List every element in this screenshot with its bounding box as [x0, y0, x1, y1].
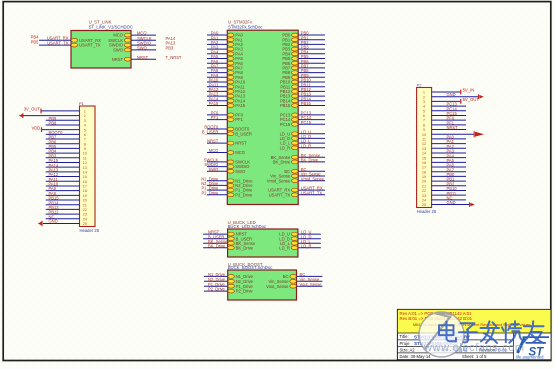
- svg-text:PF1: PF1: [235, 117, 243, 122]
- wire PB2 from U2 + net label: [298, 43, 325, 45]
- wire SWDIO from U1 + net label: [131, 44, 156, 46]
- wire USART_TX from U2 + net label: [298, 194, 325, 196]
- wire PA8 to U2 + net label: [207, 72, 227, 74]
- svg-text:PB8: PB8: [49, 121, 57, 126]
- svg-text:SWO: SWO: [209, 167, 219, 172]
- sheet entry pin PB9 on U2 right: [292, 75, 299, 79]
- sheet entry pin PF1 on U2 left: [227, 118, 234, 122]
- svg-text:NRST: NRST: [207, 139, 219, 144]
- wire P1 pin 12 net PA15: [46, 161, 80, 163]
- wire P2 pin 18 net PA7: [432, 171, 466, 173]
- svg-text:PB3: PB3: [166, 46, 174, 51]
- wire P2 pin 5 net PC14: [432, 110, 466, 112]
- sheet entry pin Vin_Sense on U4 right: [290, 279, 297, 283]
- wire BK_Sense from U2 + net label: [298, 156, 325, 158]
- sheet entry pin PF0 on U2 left: [227, 113, 234, 117]
- svg-text:P2: P2: [417, 82, 423, 87]
- svg-text:PA15: PA15: [235, 103, 246, 108]
- wire Vin_Sense from U4 + net label: [297, 280, 323, 282]
- sheet entry pin PA3 on U2 left: [227, 47, 234, 51]
- wire P2 pin 15 net PA4: [432, 157, 466, 159]
- wire NRST to U3 + net label: [203, 233, 228, 235]
- wire USART_TX to U1 + net label: [39, 44, 71, 46]
- sheet entry pin PC15 on U2 right: [292, 122, 299, 126]
- connector P1 body Header 25: [80, 106, 96, 227]
- wire GND from P2 pin 2 + power arrow: [432, 96, 479, 98]
- wire PF0 to U2 + net label: [207, 114, 227, 116]
- svg-text:5V_OUT: 5V_OUT: [463, 97, 480, 102]
- svg-text:Vout_Sense: Vout_Sense: [266, 284, 289, 289]
- sheet symbol U1 ST_LINK body: [71, 31, 131, 69]
- wire P2 pin 12 net PA1: [432, 143, 466, 145]
- wire LD_D from U2 + net label: [298, 137, 325, 139]
- sheet entry pin PA11 on U2 left: [227, 85, 234, 89]
- wire B_USER to U3 + net label: [203, 238, 228, 240]
- sheet entry pin USART_TX on U1 left: [71, 43, 78, 47]
- svg-text:BK_Drive: BK_Drive: [208, 243, 226, 248]
- wire USART_RX to U1 + net label: [39, 39, 71, 41]
- wire P1 pin 15 net PA12: [46, 176, 80, 178]
- wire P2 pin 17 net PA6: [432, 166, 466, 168]
- wire LD_U from U3 + net label: [298, 233, 321, 235]
- sheet entry pin MCO on U2 left: [227, 151, 234, 155]
- svg-text:life.augmented: life.augmented: [516, 354, 544, 359]
- svg-text:PB15: PB15: [280, 103, 291, 108]
- wire PF1 to U2 + net label: [207, 119, 227, 121]
- sheet entry pin PB6 on U2 right: [292, 61, 299, 65]
- wire P1 pin 23 net PB12: [46, 213, 80, 215]
- wire N1_Drive to U4 + net label: [204, 275, 228, 277]
- wire Vin_Sense from U2 + net label: [298, 175, 325, 177]
- wire P1 pin 22 net PB13: [46, 208, 80, 210]
- sheet entry pin PA14 on U2 left: [227, 99, 234, 103]
- wire BK_Drive from U2 + net label: [298, 161, 325, 163]
- wire SWO to U2 + net label: [207, 170, 227, 172]
- wire P1 pin 18 net PA9: [46, 190, 80, 192]
- svg-text:P2_Drive: P2_Drive: [235, 192, 253, 197]
- title block frame: [397, 309, 551, 359]
- sheet entry pin PA0 on U2 left: [227, 33, 234, 37]
- wire PB1 from U2 + net label: [298, 39, 325, 41]
- wire PB6 from U2 + net label: [298, 62, 325, 64]
- svg-text:SWO: SWO: [113, 48, 124, 53]
- sheet entry pin BC on U4 right: [290, 275, 297, 279]
- wire P1 pin 20 net PB15: [46, 199, 80, 201]
- wire USART_RX from U2 + net label: [298, 189, 325, 191]
- svg-text:P1: P1: [79, 101, 85, 106]
- wire PA1 to U2 + net label: [207, 39, 227, 41]
- wire P2 pin 21 net PB2: [432, 185, 466, 187]
- svg-text:USART_TX: USART_TX: [79, 43, 101, 48]
- sheet entry pin NRST on U1 right: [124, 57, 131, 61]
- svg-text:3V_OUT: 3V_OUT: [24, 107, 41, 112]
- wire N1_Drive to U2 + net label: [207, 180, 227, 182]
- wire P1 pin 14 net PA13: [46, 171, 80, 173]
- wire P2 pin 8 net PF1: [432, 124, 466, 126]
- svg-text:STM32Fx.SchDoc: STM32Fx.SchDoc: [228, 24, 263, 29]
- wire P1 pin 7 net PB7: [46, 138, 80, 140]
- connector P2 pin numbers 1-25: [422, 90, 427, 208]
- svg-text:Header 25: Header 25: [417, 209, 437, 214]
- svg-text:MCO: MCO: [235, 150, 245, 155]
- wire PA9 to U2 + net label: [207, 76, 227, 78]
- sheet entry pin PB0 on U2 right: [292, 33, 299, 37]
- svg-text:LD_R: LD_R: [301, 143, 312, 148]
- wire P1 pin 10 net PB4: [46, 152, 80, 154]
- sheet entry pin PB5 on U2 right: [292, 57, 299, 61]
- sheet entry pin SWO on U2 left: [227, 169, 234, 173]
- wire PB13 from U2 + net label: [298, 95, 325, 97]
- wire PC13 from U2 + net label: [298, 114, 325, 116]
- sheet entry pin PB8 on U2 right: [292, 71, 299, 75]
- wire MCO to U2 + net label: [207, 152, 227, 154]
- wire P2 pin 23 net PB11: [432, 194, 466, 196]
- svg-text:PC15: PC15: [280, 122, 291, 127]
- sheet entry pin SWCLK on U1 right: [124, 38, 131, 42]
- svg-text:B_USER: B_USER: [235, 131, 252, 136]
- connector P1 pin numbers 1-25: [83, 109, 88, 227]
- sheet entry pin PA2 on U2 left: [227, 43, 234, 47]
- svg-text:BUCK_BOOST.SchDoc: BUCK_BOOST.SchDoc: [228, 265, 274, 270]
- wire P1 pin 4 net PB8: [46, 124, 80, 126]
- svg-text:Vmid_Sense: Vmid_Sense: [267, 178, 291, 183]
- sheet entry pin BK_Sense on U3 left: [228, 241, 235, 245]
- wire P2 pin 19 net PB0: [432, 175, 466, 177]
- svg-text:NRST: NRST: [137, 55, 149, 60]
- svg-text:P2_Drive: P2_Drive: [236, 289, 254, 294]
- wire SWDIO to U2 + net label: [207, 166, 227, 168]
- wire PA13 to U2 + net label: [207, 95, 227, 97]
- sheet entry pin USART_RX on U2 right: [292, 188, 299, 192]
- sheet entry pin PA9 on U2 left: [227, 75, 234, 79]
- sheet entry pin LD_L on U3 right: [291, 241, 298, 245]
- wire PB15 from U2 + net label: [298, 105, 325, 107]
- svg-text:MCO: MCO: [209, 148, 219, 153]
- connector P2 body Header 25: [417, 88, 432, 208]
- wire P2 pin 14 net PA3: [432, 152, 466, 154]
- svg-text:LD_R: LD_R: [301, 243, 312, 248]
- svg-text:PF1: PF1: [211, 115, 219, 120]
- sheet entry pin PA13 on U2 left: [227, 94, 234, 98]
- wire PB11 from U2 + net label: [298, 86, 325, 88]
- sheet entry pin LD_L on U2 right: [292, 141, 299, 145]
- sheet entry pin BC on U2 right: [292, 169, 299, 173]
- wire P2 pin 13 net PA2: [432, 147, 466, 149]
- sheet entry pin LD_D on U3 right: [291, 237, 298, 241]
- wire PB9 from U2 + net label: [298, 76, 325, 78]
- wire PA7 to U2 + net label: [207, 67, 227, 69]
- sheet entry pin PA15 on U2 left: [227, 104, 234, 108]
- wire P2 pin 7 net PF0: [432, 119, 466, 121]
- wire PA5 to U2 + net label: [207, 58, 227, 60]
- sheet entry pin N1_Drive on U4 left: [228, 275, 235, 279]
- wire N2_Drive to U4 + net label: [204, 280, 228, 282]
- wire P2 pin 16 net PA5: [432, 161, 466, 163]
- wire PA3 to U2 + net label: [207, 48, 227, 50]
- svg-text:B_USER: B_USER: [202, 129, 218, 134]
- wire BK_Drive to U3 + net label: [203, 247, 228, 249]
- svg-text:NRST: NRST: [235, 141, 247, 146]
- sheet entry pin MCO on U1 right: [124, 33, 131, 37]
- sheet entry pin NRST on U2 left: [227, 141, 234, 145]
- wire PA15 to U2 + net label: [207, 105, 227, 107]
- svg-text:Vmid_Sense: Vmid_Sense: [301, 176, 325, 181]
- sheet entry pin LD_D on U2 right: [292, 137, 299, 141]
- wire P1 pin 9 net PB5: [46, 147, 80, 149]
- svg-text:PC15: PC15: [301, 120, 312, 125]
- wire BOOT0 to U2 + net label: [207, 128, 227, 130]
- ground GND arrow + wire to P1 pin 25: [43, 222, 80, 224]
- sheet entry pin NRST on U3 left: [228, 232, 235, 236]
- wire Vout_Sense from U4 + net label: [297, 285, 323, 287]
- sheet entry pin PB7 on U2 right: [292, 66, 299, 70]
- watermark chinese characters dian zi fa shao you: [439, 321, 544, 343]
- sheet entry pin BK_Drive on U3 left: [228, 246, 235, 250]
- svg-text:SWO: SWO: [137, 46, 147, 51]
- wire P2 pin 11 net PA0: [432, 138, 466, 140]
- wire P2 pin 24 net NC: [432, 199, 466, 201]
- wire P1_Drive to U4 + net label: [204, 285, 228, 287]
- wire PA10 to U2 + net label: [207, 81, 227, 83]
- svg-text:1 of 5: 1 of 5: [476, 354, 487, 359]
- wire PA11 to U2 + net label: [207, 86, 227, 88]
- sheet entry pin PB3 on U2 right: [292, 47, 299, 51]
- sheet entry pin PA1 on U2 left: [227, 38, 234, 42]
- sheet entry pin P2_Drive on U4 left: [228, 289, 235, 293]
- wire PA2 to U2 + net label: [207, 43, 227, 45]
- wire PB14 from U2 + net label: [298, 100, 325, 102]
- wire P2_Drive to U2 + net label: [207, 194, 227, 196]
- sheet symbol U2 STM32Fx body: [227, 30, 298, 204]
- title block revision note yellow band: [398, 310, 551, 333]
- wire LD_L from U3 + net label: [298, 242, 321, 244]
- sheet entry pin PB2 on U2 right: [292, 43, 299, 47]
- wire SWO from U1 + net label: [131, 49, 156, 51]
- sheet entry pin SWDIO on U2 left: [227, 165, 234, 169]
- svg-text:BUCK_LED.SchDoc: BUCK_LED.SchDoc: [228, 224, 267, 229]
- sheet entry pin PA8 on U2 left: [227, 71, 234, 75]
- wire P2 pin 4 net PC13: [432, 105, 466, 107]
- ground GND arrow + wire from P2 pin 25: [432, 204, 470, 206]
- sheet entry pin BK_Sense on U2 right: [292, 155, 299, 159]
- wire LD_R from U3 + net label: [298, 247, 321, 249]
- svg-text:LD_R: LD_R: [279, 245, 290, 250]
- sheet entry pin PB1 on U2 right: [292, 38, 299, 42]
- svg-text:25: 25: [83, 221, 87, 226]
- svg-text:LD_R: LD_R: [280, 145, 291, 150]
- wire BC from U2 + net label: [298, 170, 325, 172]
- svg-text:NRST: NRST: [447, 125, 459, 130]
- wire P1_Drive to U2 + net label: [207, 189, 227, 191]
- wire P1 pin 13 net PA14: [46, 166, 80, 168]
- sheet entry pin PB15 on U2 right: [292, 104, 299, 108]
- wire PB5 from U2 + net label: [298, 58, 325, 60]
- wire P1 pin 17 net PA10: [46, 185, 80, 187]
- power arrow + wire from P2 pin 10: [432, 133, 474, 135]
- sheet entry pin LD_R on U3 right: [291, 246, 298, 250]
- svg-text:30-May-14: 30-May-14: [411, 354, 432, 359]
- wire NRST from U1 + net label: [131, 58, 156, 60]
- sheet entry pin PA12 on U2 left: [227, 90, 234, 94]
- wire PA4 to U2 + net label: [207, 53, 227, 55]
- sheet entry pin PB11 on U2 right: [292, 85, 299, 89]
- sheet entry pin Vmid_Sense on U2 right: [292, 179, 299, 183]
- svg-text:NRST: NRST: [112, 57, 124, 62]
- svg-text:www.elecfans.com: www.elecfans.com: [423, 342, 525, 354]
- wire MCO from U1 + net label: [131, 34, 156, 36]
- sheet entry pin SWCLK on U2 left: [227, 160, 234, 164]
- wire P1 pin 16 net PA11: [46, 180, 80, 182]
- svg-text:BK_Drive: BK_Drive: [301, 158, 319, 163]
- power port 5V_OUT + wire from P2 pin 3: [432, 100, 461, 102]
- wire P1 pin 11 net PB3: [46, 157, 80, 159]
- wire P1 pin 19 net PA8: [46, 194, 80, 196]
- svg-text:PA15: PA15: [209, 101, 219, 106]
- svg-text:T_NRST: T_NRST: [166, 55, 182, 60]
- wire PA0 to U2 + net label: [207, 34, 227, 36]
- power port 3V_OUT + wire to P1 pin 1: [41, 110, 80, 112]
- wire PA6 to U2 + net label: [207, 62, 227, 64]
- wire P2 pin 9 net NRST: [432, 129, 466, 131]
- svg-text:25: 25: [422, 202, 426, 207]
- svg-text:BK_Drive: BK_Drive: [273, 160, 291, 165]
- sheet entry pin N2_Drive on U4 left: [228, 279, 235, 283]
- svg-text:Title:: Title:: [400, 334, 409, 339]
- sheet entry pin PC13 on U2 right: [292, 113, 299, 117]
- svg-text:Size:: Size:: [400, 347, 409, 352]
- wire P1 pin 21 net PB14: [46, 204, 80, 206]
- sheet entry pin Vout_Sense on U4 right: [290, 284, 297, 288]
- wire N2_Drive to U2 + net label: [207, 184, 227, 186]
- sheet entry pin BK_Drive on U2 right: [292, 160, 299, 164]
- title block row lines: [397, 332, 551, 334]
- sheet entry pin PA7 on U2 left: [227, 66, 234, 70]
- sheet entry pin BOOT0 on U2 left: [227, 127, 234, 131]
- svg-text:P2_Drive: P2_Drive: [208, 287, 226, 292]
- sheet entry pin USART_TX on U2 right: [292, 193, 299, 197]
- sheet entry pin PC14 on U2 right: [292, 118, 299, 122]
- wire LD_R from U2 + net label: [298, 147, 325, 149]
- svg-text:GND: GND: [447, 92, 456, 97]
- wire PB12 from U2 + net label: [298, 90, 325, 92]
- wire LD_U from U2 + net label: [298, 133, 325, 135]
- wire BK_Sense to U3 + net label: [203, 242, 228, 244]
- svg-text:Proje: Proje: [400, 341, 411, 346]
- wire PB10 from U2 + net label: [298, 81, 325, 83]
- sheet entry pin P1_Drive on U2 left: [227, 188, 234, 192]
- sheet symbol U3 BUCK_LED body: [228, 229, 298, 257]
- svg-text:SWO: SWO: [235, 169, 246, 174]
- sheet entry pin N2_Drive on U2 left: [227, 184, 234, 188]
- sheet entry pin LD_U on U3 right: [291, 232, 298, 236]
- wire PB4 from U2 + net label: [298, 53, 325, 55]
- svg-text:VDD: VDD: [31, 125, 40, 130]
- wire PB0 from U2 + net label: [298, 34, 325, 36]
- watermark elecfans circle logo: [419, 312, 464, 357]
- sheet entry pin LD_U on U2 right: [292, 132, 299, 136]
- wire PB7 from U2 + net label: [298, 67, 325, 69]
- wire BC from U4 + net label: [297, 275, 323, 277]
- sheet entry pin B_USER on U2 left: [227, 132, 234, 136]
- wire SWCLK to U2 + net label: [207, 161, 227, 163]
- sheet entry pin PB14 on U2 right: [292, 99, 299, 103]
- sheet entry pin PB10 on U2 right: [292, 80, 299, 84]
- wire P2 pin 6 net PC15: [432, 114, 466, 116]
- sheet entry pin PB12 on U2 right: [292, 90, 299, 94]
- svg-text:5V_IN: 5V_IN: [463, 88, 475, 93]
- svg-text:ST_LINK_V1/SCHDOC: ST_LINK_V1/SCHDOC: [89, 24, 133, 29]
- svg-text:PB5: PB5: [31, 39, 40, 44]
- sheet entry pin P1_Drive on U4 left: [228, 284, 235, 288]
- sheet entry pin PB13 on U2 right: [292, 94, 299, 98]
- svg-text:Date:: Date:: [400, 354, 410, 359]
- wire PA14 to U2 + net label: [207, 100, 227, 102]
- wire P1 pin 24 net NC: [46, 218, 80, 220]
- svg-text:Sheet:: Sheet:: [462, 354, 474, 359]
- svg-text:USART_TX: USART_TX: [47, 40, 69, 45]
- sheet entry pin USART_RX on U1 left: [71, 38, 78, 42]
- wire Vmid_Sense from U2 + net label: [298, 180, 325, 182]
- svg-text:PB15: PB15: [301, 101, 312, 106]
- wire SWCLK from U1 + net label: [131, 39, 156, 41]
- power port VDD + wire to P1 pin 5: [42, 129, 80, 131]
- svg-text:GND: GND: [447, 200, 456, 205]
- svg-text:A2: A2: [410, 347, 416, 352]
- sheet entry pin PA6 on U2 left: [227, 61, 234, 65]
- sheet entry pin PA10 on U2 left: [227, 80, 234, 84]
- wire P2 pin 20 net PB1: [432, 180, 466, 182]
- svg-text:Vout_Sense: Vout_Sense: [300, 282, 323, 287]
- wire B_USER to U2 + net label: [207, 133, 227, 135]
- svg-text:Header 25: Header 25: [80, 228, 100, 233]
- sheet entry pin Vin_Sense on U2 right: [292, 174, 299, 178]
- sheet entry pin PB4 on U2 right: [292, 52, 299, 56]
- sheet entry pin B_USER on U3 left: [228, 237, 235, 241]
- wire LD_D from U3 + net label: [298, 238, 321, 240]
- wire P2 pin 22 net PB10: [432, 189, 466, 191]
- sheet entry pin PA5 on U2 left: [227, 57, 234, 61]
- power port arrow + wire to P1 pin 2: [23, 115, 80, 117]
- wire P1 pin 6 net BOOT0: [46, 133, 80, 135]
- ST logo box: [514, 333, 552, 360]
- svg-text:USART_TX: USART_TX: [269, 192, 291, 197]
- wire PB3 from U2 + net label: [298, 48, 325, 50]
- svg-text:USART_TX: USART_TX: [301, 190, 323, 195]
- wire P2_Drive to U4 + net label: [204, 290, 228, 292]
- sheet entry pin LD_R on U2 right: [292, 146, 299, 150]
- wire P1 pin 8 net PB6: [46, 143, 80, 145]
- wire PB8 from U2 + net label: [298, 72, 325, 74]
- wire LD_L from U2 + net label: [298, 142, 325, 144]
- wire PA12 to U2 + net label: [207, 90, 227, 92]
- wire PC14 from U2 + net label: [298, 119, 325, 121]
- svg-text:BK_Drive: BK_Drive: [236, 245, 254, 250]
- sheet entry pin SWO on U1 right: [124, 48, 131, 52]
- wire PC15 from U2 + net label: [298, 123, 325, 125]
- sheet entry pin PA4 on U2 left: [227, 52, 234, 56]
- sheet entry pin N1_Drive on U2 left: [227, 179, 234, 183]
- power port 5V_IN + wire from P2 pin 1: [432, 91, 461, 93]
- sheet symbol U4 BUCK_BOOST body: [228, 270, 297, 300]
- svg-text:P2_Drive: P2_Drive: [201, 190, 219, 195]
- wire NRST to U2 + net label: [207, 142, 227, 144]
- sheet entry pin SWDIO on U1 right: [124, 43, 131, 47]
- wire P1 pin 3 net PB9: [46, 119, 80, 121]
- svg-text:GND: GND: [49, 219, 58, 224]
- sheet entry pin P2_Drive on U2 left: [227, 193, 234, 197]
- ST logo: [518, 336, 550, 353]
